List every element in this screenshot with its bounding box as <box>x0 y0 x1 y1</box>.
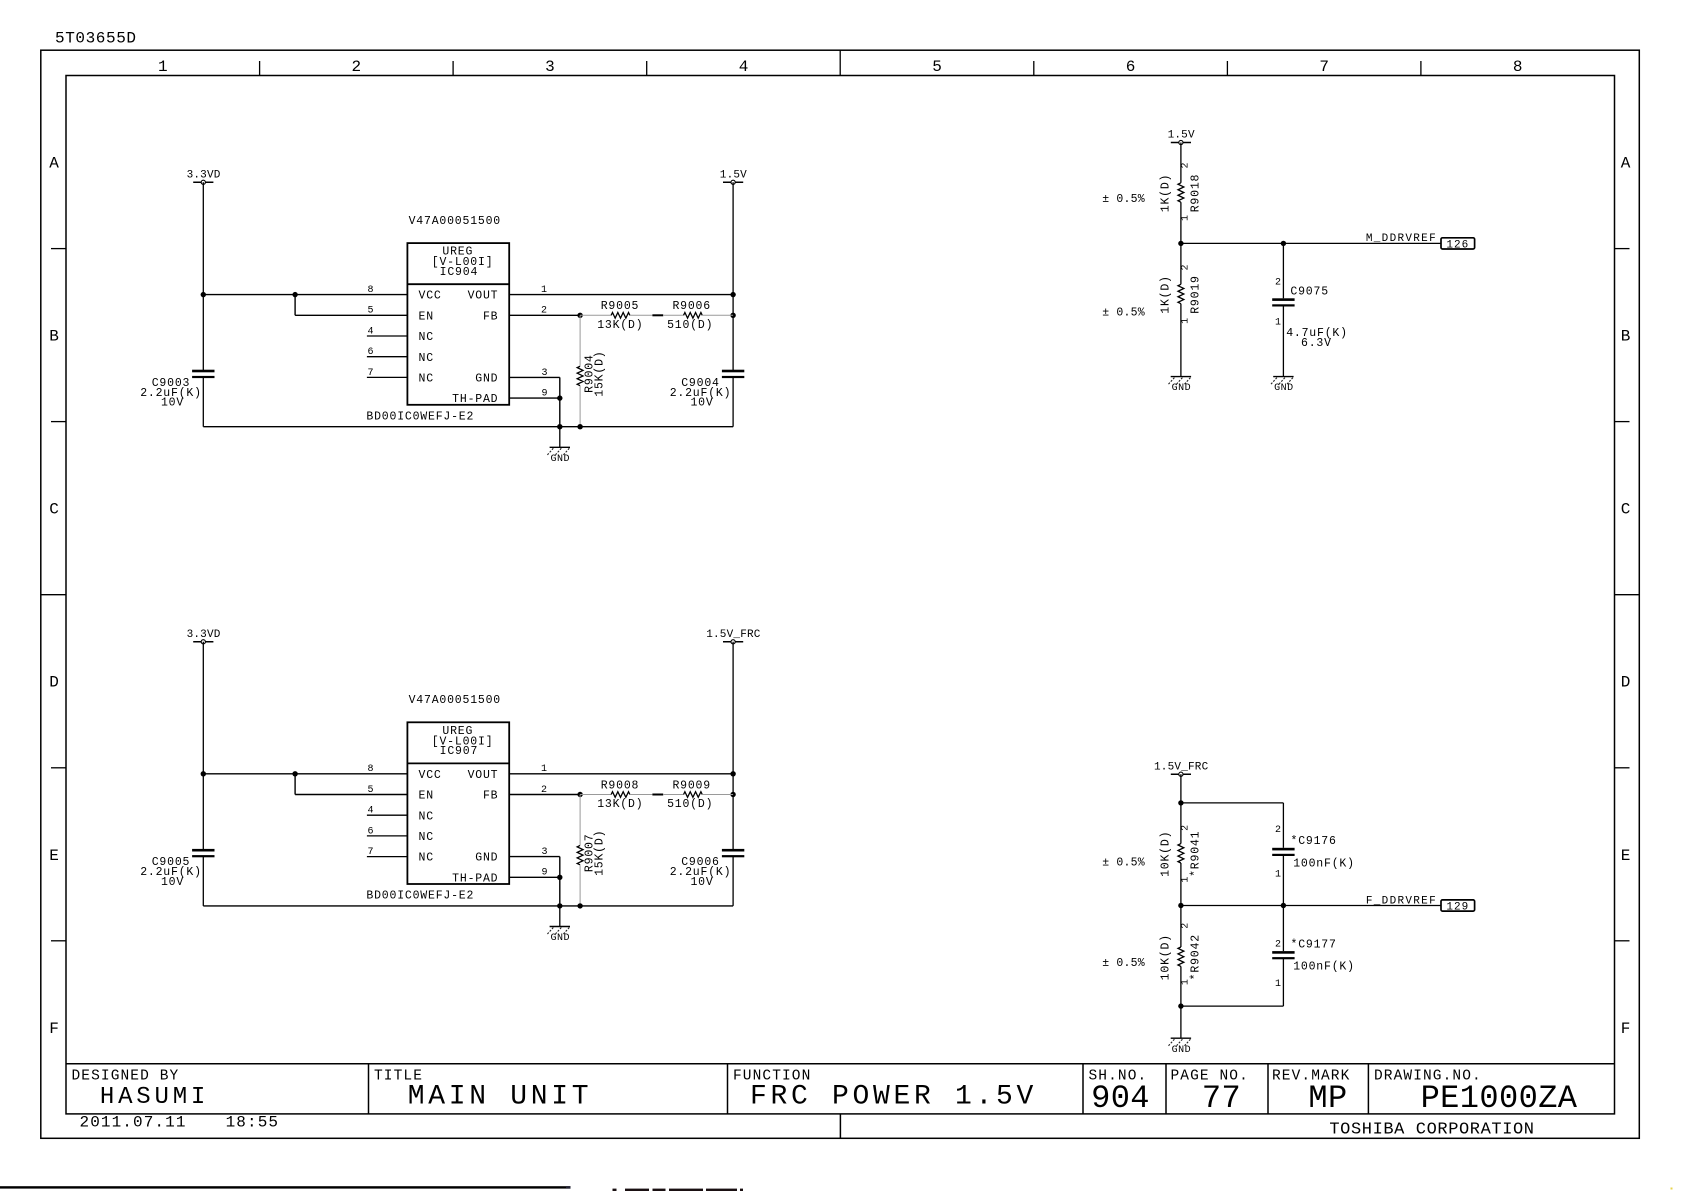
svg-text:EN: EN <box>419 790 434 803</box>
wire EN net (IC907 pin 5) <box>295 774 407 795</box>
svg-text:2: 2 <box>1180 162 1191 168</box>
wire 1.5V_FRC to divider top node <box>1178 774 1283 805</box>
svg-text:1: 1 <box>541 285 547 296</box>
svg-text:EN: EN <box>419 310 434 323</box>
svg-text:NC: NC <box>419 331 434 344</box>
pin number 3 (IC904 GND) <box>542 368 548 379</box>
svg-text:FRC POWER 1.5V: FRC POWER 1.5V <box>750 1082 1037 1113</box>
pin number 7 (IC904 NC) <box>368 368 374 379</box>
svg-text:C: C <box>49 501 59 519</box>
part number V47A00051500 (IC904) <box>409 215 501 228</box>
svg-text:VCC: VCC <box>419 769 442 782</box>
svg-text:R9018: R9018 <box>1189 174 1202 213</box>
watermark strip <box>0 1186 1673 1191</box>
power 1.5V_FRC (divider section) <box>1154 761 1209 776</box>
wire VOUT net (IC907 pin 1 to 1.5V_FRC) <box>509 771 736 776</box>
wire FB net (IC904 pin 2) <box>509 313 583 318</box>
tolerance ±0.5% (R9019) <box>1102 307 1145 320</box>
svg-text:GND: GND <box>1172 1045 1192 1056</box>
svg-text:1: 1 <box>1180 979 1191 985</box>
wire GND rail <box>203 905 733 907</box>
svg-text:R9005: R9005 <box>601 300 640 313</box>
svg-text:B: B <box>49 328 59 346</box>
svg-text:2: 2 <box>1275 940 1281 951</box>
svg-text:15K(D): 15K(D) <box>593 350 606 396</box>
svg-text:10V: 10V <box>161 397 184 410</box>
svg-text:C: C <box>1621 501 1631 519</box>
svg-text:4: 4 <box>368 806 374 817</box>
wire 3.3VD vertical <box>201 642 206 850</box>
svg-text:E: E <box>1621 847 1631 865</box>
svg-text:1K(D): 1K(D) <box>1159 174 1172 213</box>
pin number 6 (IC904 NC) <box>368 347 374 358</box>
wire 3.3VD vertical <box>201 182 206 371</box>
pin number 2 (IC904 FB) <box>541 306 547 317</box>
svg-text:NC: NC <box>419 852 434 865</box>
svg-text:4: 4 <box>739 58 749 76</box>
svg-text:3: 3 <box>542 847 548 858</box>
wire divider bottom node to GND <box>1178 1003 1283 1038</box>
capacitor C9004 <box>670 370 745 410</box>
tolerance ±0.5% (R9041) <box>1102 856 1145 869</box>
wire GND rail <box>203 426 733 428</box>
svg-text:3: 3 <box>545 58 555 76</box>
svg-text:2: 2 <box>541 785 547 796</box>
pin number 2 (C9075) <box>1275 277 1281 288</box>
svg-text:13K(D): 13K(D) <box>597 798 643 811</box>
svg-text:6.3V: 6.3V <box>1301 337 1332 350</box>
svg-text:1: 1 <box>1180 318 1191 324</box>
svg-text:2011.07.11: 2011.07.11 <box>80 1113 187 1131</box>
svg-text:GND: GND <box>475 852 498 865</box>
capacitor C9003 <box>140 370 214 410</box>
svg-text:10K(D): 10K(D) <box>1159 934 1172 980</box>
svg-text:904: 904 <box>1091 1080 1150 1117</box>
wire EN net (IC904 pin 5) <box>295 295 407 316</box>
svg-text:NC: NC <box>419 352 434 365</box>
svg-text:R9006: R9006 <box>672 300 711 313</box>
svg-text:DESIGNED BY: DESIGNED BY <box>72 1069 180 1085</box>
power 1.5V <box>720 169 747 184</box>
title block field TITLE: MAIN UNIT <box>374 1069 592 1113</box>
svg-text:HASUMI: HASUMI <box>100 1084 209 1111</box>
ground GND (1.5V_FRC divider) <box>1168 1038 1191 1056</box>
svg-text:5: 5 <box>932 58 942 76</box>
pin number 3 (IC907 GND) <box>542 847 548 858</box>
ground GND (IC904) <box>547 427 570 465</box>
resistor R9019 (1K(D)) <box>1159 243 1202 313</box>
svg-text:10V: 10V <box>161 876 184 889</box>
svg-text:2: 2 <box>1180 825 1191 831</box>
pin number 5 (IC904 EN) <box>368 306 374 317</box>
svg-text:NC: NC <box>419 373 434 386</box>
ground GND (1.5V divider) <box>1168 377 1191 395</box>
pin number 2 (IC907 FB) <box>541 785 547 796</box>
wire GND (IC904 pin 3) <box>509 377 562 429</box>
svg-text:1: 1 <box>1180 215 1191 221</box>
svg-text:F: F <box>1621 1020 1631 1038</box>
resistor R9005 (13K(D)) <box>580 300 652 332</box>
power 3.3VD <box>187 169 221 184</box>
svg-text:*R9041: *R9041 <box>1189 831 1202 877</box>
pin number 2 (R9018) <box>1180 162 1191 168</box>
svg-text:*R9042: *R9042 <box>1189 934 1202 980</box>
svg-text:1.5V_FRC: 1.5V_FRC <box>706 629 761 641</box>
resistor R9006 (510(D)) <box>663 300 733 332</box>
svg-text:A: A <box>49 155 59 173</box>
pin number 8 (IC904 VCC) <box>368 285 374 296</box>
svg-text:77: 77 <box>1202 1080 1241 1117</box>
power 3.3VD <box>187 629 221 644</box>
svg-text:± 0.5%: ± 0.5% <box>1102 307 1145 320</box>
resistor R9007 (15K(D)) <box>577 795 606 909</box>
svg-text:NC: NC <box>419 831 434 844</box>
svg-text:100nF(K): 100nF(K) <box>1293 961 1355 974</box>
pin number 9 (IC907 TH-PAD) <box>542 868 548 879</box>
svg-text:10V: 10V <box>690 397 713 410</box>
svg-text:V47A00051500: V47A00051500 <box>409 694 501 707</box>
svg-text:3: 3 <box>542 368 548 379</box>
off-page connector 129 <box>1441 900 1475 914</box>
svg-text:100nF(K): 100nF(K) <box>1293 857 1355 870</box>
pin number 6 (IC907 NC) <box>368 826 374 837</box>
svg-text:TOSHIBA CORPORATION: TOSHIBA CORPORATION <box>1329 1120 1534 1139</box>
pin number 1 (R9042) <box>1180 979 1191 985</box>
svg-text:TH-PAD: TH-PAD <box>452 872 498 885</box>
svg-text:2: 2 <box>1180 264 1191 270</box>
wire FB net (between resistors) <box>652 794 663 796</box>
resistor R9009 (510(D)) <box>663 779 733 811</box>
svg-text:IC904: IC904 <box>440 266 479 279</box>
svg-text:2: 2 <box>1275 277 1281 288</box>
wire VCC net (3.3VD to IC904 pin 8) <box>203 292 407 297</box>
svg-text:D: D <box>1621 674 1631 692</box>
svg-text:C9075: C9075 <box>1290 286 1329 299</box>
wire F_DDRVREF net <box>1178 903 1441 908</box>
title block field DRAWING.NO.: PE1000ZA <box>1374 1069 1578 1117</box>
pin number 4 (IC907 NC) <box>368 806 374 817</box>
svg-text:R9019: R9019 <box>1189 275 1202 314</box>
svg-text:MP: MP <box>1308 1080 1347 1117</box>
title block frame <box>66 1064 1615 1139</box>
svg-text:6: 6 <box>368 826 374 837</box>
svg-text:FB: FB <box>483 310 498 323</box>
resistor R9004 (15K(D)) <box>577 315 606 429</box>
svg-text:E: E <box>49 847 59 865</box>
svg-text:7: 7 <box>368 847 374 858</box>
power 1.5V_FRC <box>706 629 761 644</box>
svg-text:3.3VD: 3.3VD <box>187 169 221 181</box>
wire C9004 to GND rail <box>732 377 734 427</box>
svg-text:13K(D): 13K(D) <box>597 319 643 332</box>
capacitor C9005 <box>140 849 214 889</box>
tolerance ±0.5% (R9018) <box>1102 193 1145 206</box>
wire C9006 to GND rail <box>732 856 734 906</box>
svg-text:BD00IC0WEFJ-E2: BD00IC0WEFJ-E2 <box>366 411 474 424</box>
svg-text:VCC: VCC <box>419 290 442 303</box>
svg-text:IC907: IC907 <box>440 745 479 758</box>
wire 1.5V_FRC vertical <box>730 642 735 850</box>
title block field FUNCTION: FRC POWER 1.5V <box>733 1069 1037 1113</box>
ground GND (IC907) <box>547 906 570 944</box>
title block field REV.MARK: MP <box>1272 1069 1350 1117</box>
resistor R9042 (10K(D)) <box>1159 906 1202 1007</box>
svg-text:1K(D): 1K(D) <box>1159 275 1172 314</box>
svg-text:R9009: R9009 <box>672 779 711 792</box>
svg-text:1: 1 <box>1275 979 1281 990</box>
svg-text:10K(D): 10K(D) <box>1159 831 1172 877</box>
title block date 2011.07.11 18:55 <box>80 1113 280 1131</box>
part number V47A00051500 (IC907) <box>409 694 501 707</box>
svg-text:A: A <box>1621 155 1631 173</box>
svg-text:510(D): 510(D) <box>667 319 713 332</box>
svg-text:± 0.5%: ± 0.5% <box>1102 856 1145 869</box>
svg-text:1: 1 <box>158 58 168 76</box>
svg-text:5: 5 <box>368 785 374 796</box>
svg-text:2: 2 <box>351 58 361 76</box>
wire FB net (between resistors) <box>652 314 663 316</box>
svg-text:GND: GND <box>475 373 498 386</box>
svg-text:6: 6 <box>1126 58 1136 76</box>
pin number 2 (R9042) <box>1180 923 1191 929</box>
net label M_DDRVREF <box>1366 233 1437 245</box>
svg-text:129: 129 <box>1446 901 1469 913</box>
voltage regulator IC907 (UREG V-L00I) <box>367 722 509 885</box>
svg-text:126: 126 <box>1446 239 1469 251</box>
voltage regulator IC904 (UREG V-L00I) <box>367 243 509 406</box>
wire FB net (IC907 pin 2) <box>509 792 583 797</box>
net label F_DDRVREF <box>1366 895 1437 907</box>
ground GND (C9075) <box>1271 377 1294 395</box>
resistor R9041 (10K(D)) <box>1159 803 1202 906</box>
wire C9005 to GND rail <box>202 856 204 906</box>
sheet code 5T03655D <box>55 30 137 48</box>
svg-text:MAIN UNIT: MAIN UNIT <box>408 1082 593 1113</box>
pin number 1 (IC904 VOUT) <box>541 285 547 296</box>
svg-text:*C9176: *C9176 <box>1291 835 1337 848</box>
svg-text:7: 7 <box>1319 58 1329 76</box>
svg-text:1: 1 <box>1180 877 1191 883</box>
pin number 2 (C9176) <box>1275 825 1281 836</box>
svg-text:V47A00051500: V47A00051500 <box>409 215 501 228</box>
svg-text:1.5V: 1.5V <box>720 169 747 181</box>
svg-text:GND: GND <box>551 933 571 944</box>
pin number 2 (R9041) <box>1180 825 1191 831</box>
wire TH-PAD (IC907 pin 9) <box>509 875 562 880</box>
pin number 4 (IC904 NC) <box>368 326 374 337</box>
svg-text:F: F <box>49 1020 59 1038</box>
wire TH-PAD (IC904 pin 9) <box>509 395 562 400</box>
wire 1.5V vertical <box>730 182 735 371</box>
svg-text:F_DDRVREF: F_DDRVREF <box>1366 895 1437 907</box>
svg-text:510(D): 510(D) <box>667 798 713 811</box>
svg-text:FB: FB <box>483 790 498 803</box>
svg-text:15K(D): 15K(D) <box>593 830 606 876</box>
svg-text:8: 8 <box>368 764 374 775</box>
pin number 1 (C9075) <box>1275 318 1281 329</box>
capacitor C9006 <box>670 849 745 889</box>
svg-text:18:55: 18:55 <box>226 1113 280 1131</box>
svg-text:2: 2 <box>1275 825 1281 836</box>
wire C9003 to GND rail <box>202 377 204 427</box>
svg-text:8: 8 <box>1513 58 1523 76</box>
svg-text:6: 6 <box>368 347 374 358</box>
pin number 1 (R9041) <box>1180 877 1191 883</box>
title block field DESIGNED BY: HASUMI <box>72 1069 210 1111</box>
svg-text:1.5V: 1.5V <box>1168 130 1195 142</box>
title block field SH.NO.: 904 <box>1089 1069 1150 1117</box>
svg-text:± 0.5%: ± 0.5% <box>1102 193 1145 206</box>
svg-text:PE1000ZA: PE1000ZA <box>1421 1080 1578 1117</box>
off-page connector 126 <box>1441 238 1475 252</box>
title block TOSHIBA CORPORATION <box>1329 1120 1534 1139</box>
svg-text:VOUT: VOUT <box>468 769 499 782</box>
pin number 1 (R9019) <box>1180 318 1191 324</box>
svg-text:4: 4 <box>368 326 374 337</box>
svg-text:5T03655D: 5T03655D <box>55 30 137 48</box>
svg-text:7: 7 <box>368 368 374 379</box>
svg-text:± 0.5%: ± 0.5% <box>1102 957 1145 970</box>
pin number 2 (R9019) <box>1180 264 1191 270</box>
svg-text:8: 8 <box>368 285 374 296</box>
pin number 1 (C9177) <box>1275 979 1281 990</box>
pin number 7 (IC907 NC) <box>368 847 374 858</box>
svg-text:*C9177: *C9177 <box>1291 938 1337 951</box>
svg-text:R9008: R9008 <box>601 779 640 792</box>
wire R9019 to GND <box>1180 304 1182 377</box>
svg-text:5: 5 <box>368 306 374 317</box>
svg-text:NC: NC <box>419 810 434 823</box>
svg-text:D: D <box>49 674 59 692</box>
pin number 9 (IC904 TH-PAD) <box>542 389 548 400</box>
title block field PAGE NO.: 77 <box>1171 1069 1249 1117</box>
tolerance ±0.5% (R9042) <box>1102 957 1145 970</box>
capacitor C9075 (4.7uF(K)) <box>1272 243 1348 376</box>
resistor R9018 (1K(D)) <box>1159 143 1202 244</box>
svg-text:9: 9 <box>542 389 548 400</box>
resistor R9008 (13K(D)) <box>580 779 652 811</box>
pin number 5 (IC907 EN) <box>368 785 374 796</box>
svg-text:1: 1 <box>1275 870 1281 881</box>
svg-text:TH-PAD: TH-PAD <box>452 393 498 406</box>
pin number 1 (IC907 VOUT) <box>541 764 547 775</box>
pin number 1 (R9018) <box>1180 215 1191 221</box>
svg-text:3.3VD: 3.3VD <box>187 629 221 641</box>
wire VCC net (3.3VD to IC907 pin 8) <box>203 771 407 776</box>
svg-text:9: 9 <box>542 868 548 879</box>
svg-text:GND: GND <box>1274 383 1294 394</box>
pin number 8 (IC907 VCC) <box>368 764 374 775</box>
svg-text:2: 2 <box>541 306 547 317</box>
wire VOUT net (IC904 pin 1 to 1.5V) <box>509 292 736 297</box>
part number BD00IC0WEFJ-E2 (IC907) <box>366 890 474 903</box>
svg-text:GND: GND <box>551 454 571 465</box>
wire GND (IC907 pin 3) <box>509 857 562 909</box>
part number BD00IC0WEFJ-E2 (IC904) <box>366 411 474 424</box>
svg-text:GND: GND <box>1172 383 1192 394</box>
svg-text:1: 1 <box>541 764 547 775</box>
svg-text:1: 1 <box>1275 318 1281 329</box>
svg-text:M_DDRVREF: M_DDRVREF <box>1366 233 1437 245</box>
pin number 1 (C9176) <box>1275 870 1281 881</box>
svg-text:2: 2 <box>1180 923 1191 929</box>
power 1.5V (divider section) <box>1168 130 1195 145</box>
svg-text:VOUT: VOUT <box>468 290 499 303</box>
svg-text:1.5V_FRC: 1.5V_FRC <box>1154 761 1209 773</box>
capacitor C9176 (100nF(K)) <box>1272 803 1355 906</box>
pin number 2 (C9177) <box>1275 940 1281 951</box>
svg-text:B: B <box>1621 328 1631 346</box>
capacitor C9177 (100nF(K)) <box>1272 906 1355 1007</box>
svg-text:BD00IC0WEFJ-E2: BD00IC0WEFJ-E2 <box>366 890 474 903</box>
svg-text:10V: 10V <box>690 876 713 889</box>
wire M_DDRVREF net <box>1178 241 1441 246</box>
